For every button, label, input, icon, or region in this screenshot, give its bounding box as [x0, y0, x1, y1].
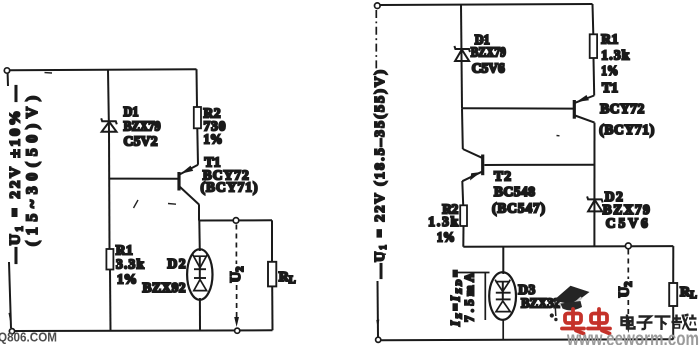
zener pair D3 (right, oval) — [489, 272, 516, 320]
wire left rail right circuit (dash-dot) — [375, 10, 377, 72]
terminal bottom left of right circuit — [376, 337, 381, 342]
wire D1 branch upper — [108, 70, 109, 132]
zener pair D2 (left, oval) — [187, 249, 212, 300]
svg-text:(BC547): (BC547) — [492, 201, 545, 216]
wire D1 branch right — [461, 4, 462, 108]
zener diode D1 (right) — [454, 46, 470, 61]
terminal output left — [233, 218, 239, 224]
svg-text:BC548: BC548 — [494, 184, 535, 199]
resistor RL (right) — [669, 283, 677, 306]
resistor R1 (right) — [590, 34, 597, 58]
svg-text:1.3k: 1.3k — [428, 214, 458, 229]
svg-text:C5V2: C5V2 — [124, 134, 158, 149]
svg-text:1.3k: 1.3k — [601, 48, 629, 63]
wire D2 to bottom rail — [199, 298, 201, 331]
svg-text:R1: R1 — [601, 32, 618, 47]
wire D3 branch upper — [502, 247, 504, 274]
terminal U2 bottom left — [235, 328, 240, 333]
svg-text:RL: RL — [680, 285, 697, 301]
wire RL to bottom — [271, 286, 273, 330]
zener diode D2 (right) — [587, 196, 603, 211]
wire load branch right — [672, 246, 674, 283]
wire D3 to bottom rail — [502, 320, 504, 340]
svg-text:U2: U2 — [617, 282, 635, 298]
wire T1 collector to D2 — [593, 123, 595, 247]
wire output rail right — [463, 245, 673, 248]
scan specks — [45, 40, 560, 254]
wire T2 collector riser — [461, 108, 464, 149]
wire R1 drop right — [592, 4, 595, 34]
svg-text:—U1 = 22V (18.5–35(55)V): —U1 = 22V (18.5–35(55)V) — [373, 70, 388, 279]
resistor R1 — [106, 249, 113, 270]
resistor R2 (right) — [460, 205, 467, 226]
svg-text:T1: T1 — [602, 80, 618, 95]
transistor T2 (BC548 npn) — [462, 149, 482, 181]
logo text dianzixiazaizhan (dark) — [622, 315, 698, 331]
wire T1 base — [110, 178, 178, 180]
wire R2 to output rail — [462, 226, 464, 247]
svg-text:(BCY71): (BCY71) — [599, 122, 654, 137]
svg-text:1%: 1% — [437, 230, 455, 245]
wire T1 base right — [462, 107, 573, 109]
svg-text:C5V6: C5V6 — [472, 61, 505, 76]
svg-text:D2: D2 — [168, 256, 186, 271]
wire R2 drop — [196, 69, 199, 107]
wire top rail right circuit — [380, 4, 592, 5]
terminal output right — [625, 243, 631, 249]
resistor R2 — [194, 107, 201, 128]
wire R1 to T1 emitter — [593, 58, 596, 96]
terminal bottom-left — [9, 329, 14, 334]
svg-text:—U1 = 22V ±10% —: —U1 = 22V ±10% — — [8, 85, 26, 264]
logo text chongchong (red) — [562, 309, 610, 334]
resistor RL (left) — [268, 262, 276, 287]
input terminal top-left — [4, 68, 9, 73]
left rail arrow — [9, 313, 12, 322]
wire R1 to bottom rail — [109, 270, 112, 331]
node U1 label left (rotated) — [8, 85, 42, 264]
zi — [637, 317, 653, 330]
wire RL right to bottom — [672, 306, 674, 340]
node U2 left (dashed with arrow) — [234, 225, 239, 328]
svg-text:D1: D1 — [124, 104, 139, 119]
svg-text:U2: U2 — [228, 267, 246, 283]
svg-text:7.5mA: 7.5mA — [463, 273, 477, 322]
wire left rail right lower — [377, 281, 380, 337]
wire bottom rail right circuit — [381, 338, 673, 341]
wire T2 emitter to R2 — [461, 181, 464, 205]
wire D2 branch — [198, 221, 201, 252]
svg-text:BCY72: BCY72 — [600, 101, 644, 116]
transistor T1 (right, BCY72 pnp) — [574, 95, 594, 123]
svg-text:C5V6: C5V6 — [606, 216, 648, 231]
logo graduation cap — [550, 286, 590, 321]
svg-text:IZ=IZD=: IZ=IZD= — [449, 270, 464, 327]
svg-text:1%: 1% — [117, 272, 137, 287]
wire T2 base — [484, 164, 594, 166]
left rail arrow right circuit — [376, 320, 379, 330]
wire top rail left circuit — [10, 69, 197, 70]
wire D1 to base node — [108, 132, 111, 249]
svg-text:Q806.COM: Q806.COM — [0, 330, 57, 345]
wire left rail upper stub — [7, 74, 9, 87]
svg-text:(BCY71): (BCY71) — [201, 180, 258, 195]
svg-text:BZX79: BZX79 — [471, 45, 506, 60]
svg-text:RL: RL — [279, 270, 296, 286]
svg-text:BZX79: BZX79 — [124, 119, 161, 134]
xia — [655, 317, 671, 331]
transistor T1 (left, BCY72 pnp) — [179, 165, 199, 205]
svg-text:www.eeworm.com: www.eeworm.com — [566, 329, 699, 345]
label Iz (rotated) — [449, 270, 490, 327]
zener diode D1 (left) — [101, 118, 117, 131]
node U2 right (dashed with arrow) — [626, 250, 631, 334]
wire left rail lower — [9, 262, 11, 328]
dian — [622, 315, 635, 329]
svg-text:R1: R1 — [116, 243, 133, 258]
wire output node left — [199, 219, 272, 221]
zhan — [689, 315, 698, 330]
svg-text:1%: 1% — [601, 63, 618, 78]
svg-text:(15~30(50)V): (15~30(50)V) — [24, 96, 41, 246]
wire T1 collector drop — [198, 204, 200, 220]
input terminal top right circuit — [375, 3, 381, 9]
wire load branch left — [271, 220, 273, 261]
svg-text:T2: T2 — [494, 169, 511, 184]
svg-text:3.3k: 3.3k — [116, 257, 144, 272]
zai — [672, 315, 690, 330]
wire R2 to T1 emitter — [196, 128, 199, 165]
svg-text:1%: 1% — [204, 132, 223, 147]
svg-text:BZX92: BZX92 — [143, 280, 186, 295]
wire bottom rail left circuit — [15, 329, 273, 332]
